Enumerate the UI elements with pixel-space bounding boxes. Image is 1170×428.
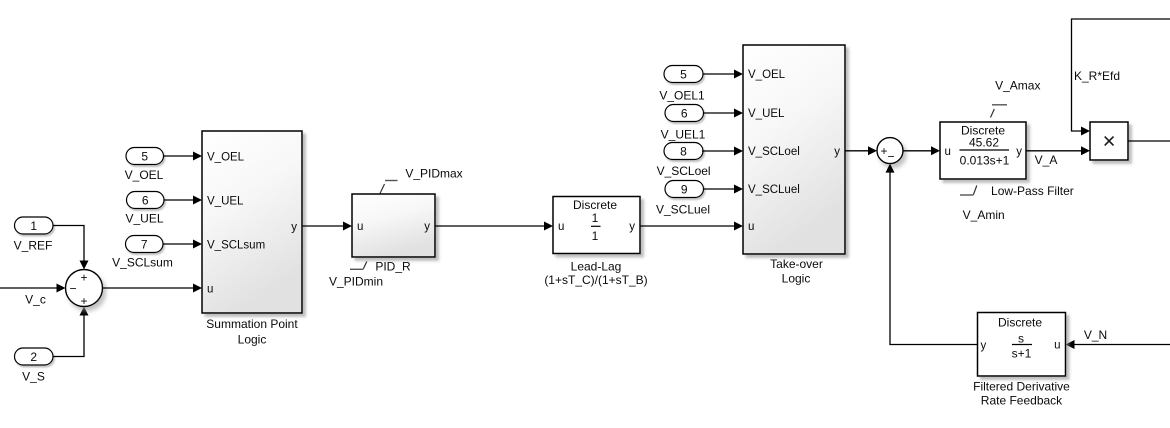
- svg-text:V_UEL: V_UEL: [125, 212, 163, 226]
- svg-text:45.62: 45.62: [969, 136, 999, 150]
- input port 2: [15, 348, 54, 365]
- wire port6 to Summation: [164, 196, 202, 205]
- svg-text:+: +: [880, 144, 887, 158]
- svg-text:y: y: [834, 146, 840, 158]
- svg-text:u: u: [1054, 340, 1060, 352]
- svg-text:y: y: [981, 340, 987, 352]
- svg-text:Summation Point: Summation Point: [206, 317, 298, 331]
- label Lead-Lag: [544, 260, 647, 288]
- input port 7: [126, 236, 164, 253]
- svg-text:5: 5: [680, 67, 687, 81]
- block Filtered Derivative: [978, 313, 1066, 377]
- wire port9 to Take-over: [703, 185, 743, 194]
- svg-text:V_SCLsum: V_SCLsum: [112, 256, 173, 270]
- svg-text:Logic: Logic: [238, 333, 267, 347]
- wire PID_R to Lead-Lag: [435, 222, 553, 231]
- label Filtered Derivative Rate Feedback: [973, 380, 1070, 408]
- svg-text:V_SCLoel: V_SCLoel: [657, 164, 711, 178]
- saturation icon V_PIDmin: [350, 262, 367, 270]
- svg-text:(1+sT_C)/(1+sT_B): (1+sT_C)/(1+sT_B): [544, 273, 647, 287]
- wire sum S2 to Low-Pass u: [903, 146, 940, 155]
- svg-text:Take-over: Take-over: [770, 257, 823, 271]
- svg-text:V_PIDmin: V_PIDmin: [329, 275, 383, 289]
- saturation icon V_Amin: [960, 186, 977, 196]
- svg-text:V_SCLsum: V_SCLsum: [207, 239, 265, 251]
- input port 9 (V_SCLuel): [665, 181, 704, 198]
- svg-text:V_Amin: V_Amin: [963, 208, 1005, 222]
- sum junction S2: [877, 138, 903, 164]
- wire port6 to Take-over: [704, 109, 744, 118]
- svg-text:2: 2: [30, 350, 37, 364]
- wire port7 to Summation: [163, 240, 202, 249]
- wire Summation y to PID_R: [302, 222, 352, 231]
- svg-text:Filtered Derivative: Filtered Derivative: [973, 380, 1070, 394]
- wire port5 to Take-over: [703, 70, 743, 79]
- svg-text:Low-Pass Filter: Low-Pass Filter: [991, 184, 1074, 198]
- svg-text:V_Amax: V_Amax: [995, 78, 1040, 92]
- svg-text:y: y: [291, 221, 297, 233]
- svg-text:s+1: s+1: [1012, 347, 1032, 361]
- svg-text:V_S: V_S: [22, 370, 45, 384]
- svg-text:V_c: V_c: [25, 293, 46, 307]
- input port 6: [127, 192, 165, 209]
- svg-text:y: y: [629, 221, 635, 233]
- input port 5 (V_OEL1): [664, 66, 703, 83]
- wire Take-over y to sum S2: [845, 146, 877, 155]
- svg-text:Discrete: Discrete: [573, 198, 617, 212]
- wire K_R*Efd feedback: [1072, 19, 1170, 136]
- svg-text:1: 1: [30, 219, 37, 233]
- input port 8 (V_SCLoel): [664, 143, 703, 160]
- wire Filtered Derivative y to sum S2: [886, 164, 978, 345]
- svg-text:8: 8: [680, 144, 687, 158]
- wire sum S1 to Summation u: [103, 284, 203, 293]
- svg-text:V_SCLoel: V_SCLoel: [748, 146, 800, 158]
- svg-text:u: u: [945, 146, 951, 158]
- svg-text:−: −: [69, 282, 76, 296]
- svg-text:u: u: [748, 221, 754, 233]
- wire port8 to Take-over: [702, 147, 743, 156]
- saturation icon V_Amax: [991, 105, 1008, 118]
- wire port5 to Summation: [164, 152, 203, 161]
- wire Low-Pass y to product: [1026, 146, 1090, 155]
- wire port2 to sum bottom: [53, 307, 89, 357]
- wire product output: [1128, 140, 1170, 142]
- svg-text:V_SCLuel: V_SCLuel: [656, 203, 710, 217]
- svg-text:V_REF: V_REF: [14, 239, 53, 253]
- svg-text:+: +: [80, 294, 87, 308]
- svg-text:Discrete: Discrete: [998, 316, 1042, 330]
- svg-text:Logic: Logic: [782, 272, 811, 286]
- label Summation Point Logic: [206, 317, 298, 347]
- svg-text:V_OEL: V_OEL: [748, 69, 786, 81]
- svg-text:5: 5: [141, 149, 148, 163]
- svg-text:PID_R: PID_R: [375, 260, 411, 274]
- wire port1 to sum top: [53, 226, 89, 270]
- svg-text:1: 1: [592, 229, 599, 243]
- label Take-over Logic: [770, 257, 823, 286]
- input port 5: [126, 148, 164, 165]
- svg-text:V_SCLuel: V_SCLuel: [748, 184, 800, 196]
- svg-text:y: y: [424, 221, 430, 233]
- block PID_R: [352, 194, 435, 257]
- svg-text:V_PIDmax: V_PIDmax: [405, 167, 462, 181]
- sum junction S1: [66, 270, 103, 309]
- svg-text:7: 7: [141, 237, 148, 251]
- svg-text:−: −: [887, 150, 894, 164]
- input port 6 (V_UEL1): [665, 105, 704, 122]
- svg-text:V_N: V_N: [1084, 328, 1107, 342]
- wire V_N input: [1066, 340, 1170, 349]
- svg-text:u: u: [558, 221, 564, 233]
- svg-text:Lead-Lag: Lead-Lag: [571, 260, 622, 274]
- svg-text:6: 6: [681, 106, 688, 120]
- svg-text:Rate Feedback: Rate Feedback: [981, 394, 1063, 408]
- svg-text:s: s: [1018, 332, 1024, 346]
- block Summation Point Logic: [202, 131, 302, 313]
- svg-text:u: u: [207, 283, 213, 295]
- block product: [1090, 122, 1128, 160]
- svg-text:6: 6: [142, 193, 149, 207]
- svg-text:u: u: [357, 221, 363, 233]
- svg-text:0.013s+1: 0.013s+1: [960, 154, 1010, 168]
- svg-text:V_UEL1: V_UEL1: [661, 128, 706, 142]
- wire V_c input: [0, 284, 66, 293]
- svg-text:9: 9: [681, 182, 688, 196]
- wire Lead-Lag to Take-over u: [640, 222, 743, 231]
- block Lead-Lag: [553, 197, 640, 254]
- svg-text:+: +: [80, 271, 87, 285]
- saturation icon V_PIDmax: [380, 181, 398, 194]
- input port 1: [15, 217, 54, 234]
- svg-text:1: 1: [592, 211, 599, 225]
- svg-text:V_OEL: V_OEL: [207, 151, 245, 163]
- svg-text:y: y: [1016, 146, 1022, 158]
- block Take-over Logic: [743, 45, 845, 254]
- svg-text:V_A: V_A: [1035, 153, 1058, 167]
- svg-text:V_UEL: V_UEL: [207, 195, 244, 207]
- block Low-Pass Filter: [940, 122, 1026, 179]
- svg-text:V_UEL: V_UEL: [748, 108, 785, 120]
- svg-text:K_R*Efd: K_R*Efd: [1074, 69, 1120, 83]
- svg-text:V_OEL: V_OEL: [125, 168, 164, 182]
- svg-text:V_OEL1: V_OEL1: [659, 88, 705, 102]
